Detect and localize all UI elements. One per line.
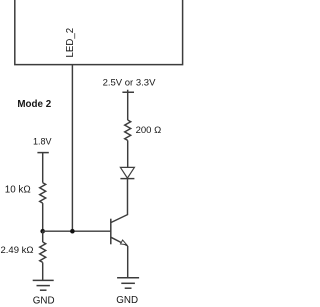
transistor Q1 emitter arrowhead <box>121 240 127 245</box>
resistor R 10k <box>40 183 46 203</box>
diode D1 triangle <box>120 167 134 178</box>
svg-text:200 Ω: 200 Ω <box>136 125 162 136</box>
power bar 2.5V/3.3V <box>122 90 134 92</box>
wire node A to R 2.49k <box>42 231 44 242</box>
svg-text:GND: GND <box>116 295 138 306</box>
svg-text:GND: GND <box>33 296 55 307</box>
wire 1.8V to R 10k <box>42 153 44 183</box>
wire diode to collector <box>111 179 128 223</box>
transistor Q1 base bar <box>110 219 112 245</box>
svg-text:10 kΩ: 10 kΩ <box>5 184 31 195</box>
IC box U1 <box>15 0 183 65</box>
wire emitter to ground <box>127 246 129 278</box>
node B junction dot <box>70 229 75 234</box>
wire node A to transistor base <box>43 230 111 232</box>
wire R 200 to diode <box>127 140 129 167</box>
transistor Q1 emitter diagonal <box>111 237 128 246</box>
wire R 10k to node A <box>42 203 44 231</box>
svg-text:LED_2: LED_2 <box>65 28 76 58</box>
node A junction dot <box>40 229 45 234</box>
svg-text:2.49 kΩ: 2.49 kΩ <box>1 245 34 256</box>
svg-text:1.8V: 1.8V <box>33 137 52 147</box>
wire R 2.49k to ground <box>42 262 44 280</box>
diode D1 cathode bar <box>120 178 134 180</box>
power bar 1.8V <box>37 152 48 154</box>
ground left <box>33 280 54 290</box>
resistor R 200 ohm <box>125 120 131 140</box>
wire rail to R 200 <box>127 92 129 120</box>
ground right <box>117 278 139 288</box>
resistor R 2.49k <box>40 242 46 262</box>
svg-text:Mode 2: Mode 2 <box>17 99 51 110</box>
svg-text:2.5V or 3.3V: 2.5V or 3.3V <box>103 78 156 89</box>
wire: LED_2 pin to base node <box>71 65 73 232</box>
